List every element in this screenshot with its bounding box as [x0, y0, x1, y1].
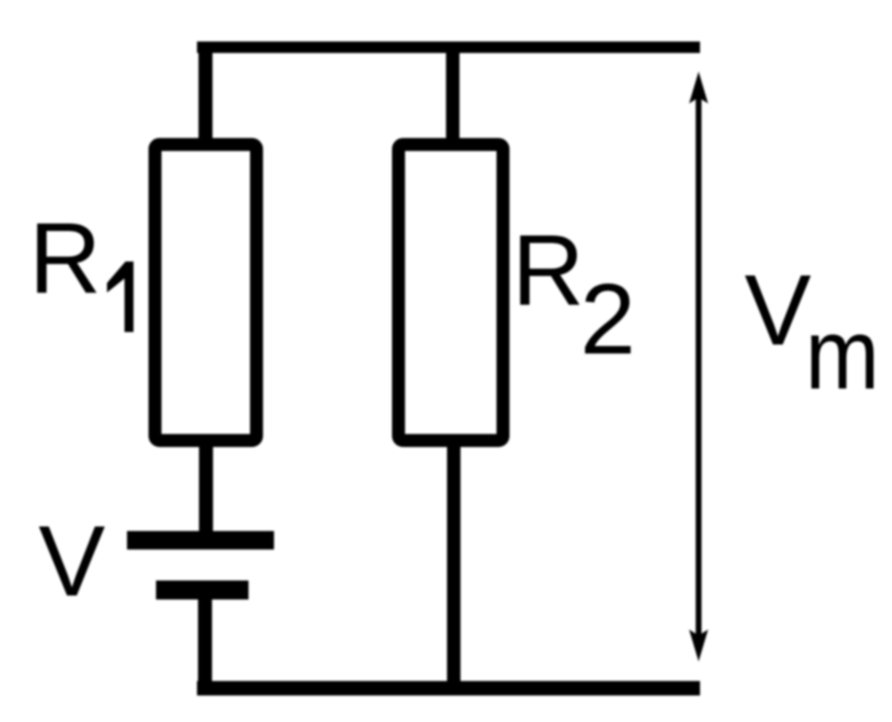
resistor R2	[399, 145, 504, 441]
svg-text:2: 2	[580, 264, 636, 376]
wire: top rail from node above R1 to arrow corner	[197, 42, 700, 54]
wire: battery negative plate down to bottom rail	[198, 599, 212, 689]
wire: vertical drop from top rail to resistor R1	[199, 42, 213, 146]
svg-text:R: R	[512, 215, 584, 327]
svg-text:V: V	[745, 255, 812, 367]
arrow Vm measurement (double-headed vertical)	[689, 72, 708, 662]
svg-text:m: m	[805, 299, 879, 411]
wire: vertical drop from top rail to resistor R2	[446, 42, 460, 146]
battery V negative plate (short)	[156, 581, 249, 600]
wire: bottom rail return path	[197, 681, 700, 696]
wire: resistor R1 bottom lead to battery positive plate	[199, 440, 213, 532]
label R1 subscript 1	[107, 262, 134, 333]
svg-text:V: V	[39, 506, 106, 618]
resistor R1	[155, 145, 257, 441]
svg-text:R: R	[29, 203, 101, 315]
battery V positive plate (long)	[127, 531, 274, 550]
wire: vertical lead from resistor R2 bottom to bottom rail	[447, 440, 461, 690]
